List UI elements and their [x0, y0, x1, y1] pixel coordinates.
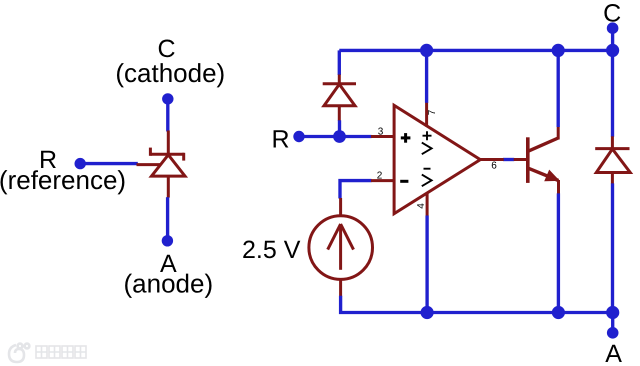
wire pin2 branch to source [340, 181, 372, 199]
svg-text:6: 6 [491, 161, 497, 172]
op-amp minus input mark [400, 180, 408, 183]
svg-text:R: R [271, 126, 289, 154]
node R terminal dot (left symbol) [75, 158, 86, 169]
op-amp V+ label [422, 131, 432, 154]
svg-text:A: A [605, 340, 622, 366]
svg-text:2.5 V: 2.5 V [242, 236, 301, 264]
junction top rail / opamp V+ [420, 44, 433, 57]
wire collector to top rail [557, 50, 560, 127]
node C terminal dot (left symbol) [162, 93, 173, 104]
wire top rail [339, 49, 612, 52]
svg-text:(anode): (anode) [123, 268, 213, 298]
wire cathode lead [166, 99, 169, 132]
transistor Q1 [514, 127, 559, 194]
node A terminal dot (right circuit) [607, 327, 619, 339]
voltage source V1 2.5V [309, 198, 373, 296]
wire C terminal to top rail [611, 28, 614, 50]
op-amp V- label [422, 169, 432, 187]
junction R wire / D1 branch [333, 130, 346, 143]
junction top rail / C terminal [606, 44, 619, 57]
svg-text:2: 2 [377, 171, 383, 182]
op-amp plus input mark [401, 133, 411, 143]
svg-text:3: 3 [378, 127, 384, 138]
junction bottom rail / opamp V- [421, 306, 434, 319]
svg-text:(cathode): (cathode) [115, 58, 225, 88]
junction top rail / collector [552, 44, 565, 57]
op-amp output pin 6 stub [481, 158, 504, 161]
wire emitter to bottom rail [557, 193, 560, 312]
wire D2 anode to bottom rail [611, 183, 614, 312]
node A terminal dot (left symbol) [162, 235, 173, 246]
svg-text:(reference): (reference) [0, 165, 126, 195]
wire opamp pin 7 to top rail [425, 50, 428, 102]
wire source bottom to bottom rail [341, 296, 613, 313]
svg-text:4: 4 [416, 203, 427, 209]
wire top rail down to diode D1 [338, 50, 341, 75]
wire R terminal to opamp pin 3 [299, 135, 372, 138]
wire D1 anode down to R node [338, 120, 341, 136]
wire bottom rail to A terminal [611, 313, 614, 333]
op-amp U1 [371, 102, 480, 216]
watermark logo [9, 344, 29, 362]
wire reference lead [80, 162, 138, 165]
junction bottom rail / A terminal [606, 306, 619, 319]
wire opamp output to transistor base [503, 158, 514, 161]
diode D2 (right) [595, 136, 630, 184]
TL431 symbol [137, 131, 186, 198]
wire C branch down to diode D2 [611, 50, 614, 136]
wire opamp pin 4 to bottom rail [425, 216, 428, 313]
watermark text blocks [36, 346, 86, 358]
wire anode lead [166, 197, 169, 241]
junction bottom rail / emitter [552, 306, 565, 319]
transistor Q1 emitter arrow [544, 170, 560, 182]
diode D1 (upper left) [323, 75, 356, 121]
node R terminal dot (right circuit) [293, 131, 304, 142]
svg-text:7: 7 [427, 109, 438, 115]
node C terminal dot (right circuit) [607, 22, 619, 34]
